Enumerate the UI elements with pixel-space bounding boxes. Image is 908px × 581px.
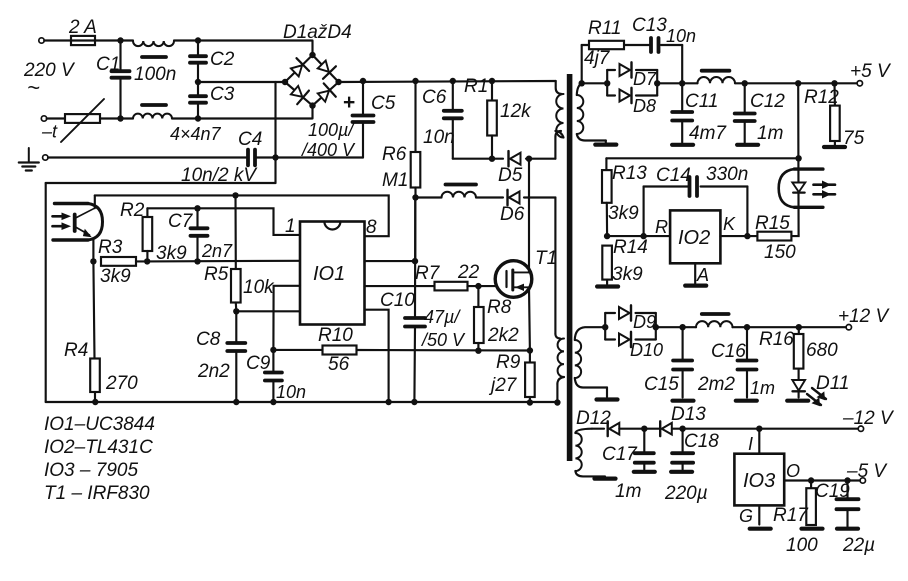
svg-text:IO1: IO1 — [313, 263, 345, 285]
svg-text:D6: D6 — [500, 204, 525, 225]
svg-text:680: 680 — [806, 340, 838, 361]
svg-text:75: 75 — [843, 128, 865, 149]
svg-text:C8: C8 — [196, 329, 221, 350]
svg-text:8: 8 — [366, 217, 377, 238]
svg-text:10n: 10n — [276, 382, 306, 402]
svg-text:R14: R14 — [613, 237, 648, 258]
svg-text:M1: M1 — [382, 170, 408, 191]
svg-text:R11: R11 — [588, 18, 621, 39]
svg-text:220µ: 220µ — [664, 483, 708, 504]
svg-text:/50 V: /50 V — [420, 330, 466, 350]
svg-text:IO2: IO2 — [678, 227, 710, 249]
svg-text:C15: C15 — [644, 374, 679, 395]
svg-text:2 A: 2 A — [68, 17, 97, 38]
svg-text:R15: R15 — [755, 213, 790, 234]
svg-text:D13: D13 — [671, 404, 706, 425]
svg-text:4×4n7: 4×4n7 — [170, 124, 222, 144]
svg-text:D12: D12 — [576, 408, 611, 429]
svg-text:C12: C12 — [750, 91, 785, 112]
svg-text:2n7: 2n7 — [201, 241, 233, 261]
svg-text:4m7: 4m7 — [689, 123, 727, 144]
svg-text:IO2–TL431C: IO2–TL431C — [44, 437, 153, 458]
svg-text:C5: C5 — [371, 93, 396, 114]
svg-text:+12 V: +12 V — [838, 306, 891, 327]
svg-text:C9: C9 — [246, 353, 271, 374]
svg-text:D1ažD4: D1ažD4 — [283, 22, 352, 43]
svg-text:C14: C14 — [656, 165, 691, 186]
svg-text:56: 56 — [328, 354, 350, 375]
svg-text:IO3: IO3 — [743, 470, 775, 492]
svg-text:270: 270 — [105, 373, 138, 394]
svg-text:R3: R3 — [98, 237, 123, 258]
svg-text:47µ/: 47µ/ — [424, 307, 461, 327]
svg-text:j27: j27 — [488, 375, 518, 396]
svg-text:D11: D11 — [816, 373, 849, 394]
svg-text:IO1–UC3844: IO1–UC3844 — [44, 414, 155, 435]
svg-text:O: O — [786, 461, 800, 481]
svg-text:1m: 1m — [757, 123, 783, 144]
svg-text:R7: R7 — [415, 263, 441, 284]
svg-text:R5: R5 — [204, 264, 229, 285]
svg-text:D9: D9 — [633, 312, 656, 332]
svg-text:R6: R6 — [382, 144, 407, 165]
svg-text:+5 V: +5 V — [850, 61, 892, 82]
svg-text:C7: C7 — [168, 211, 194, 232]
svg-text:C3: C3 — [210, 84, 235, 105]
svg-text:10k: 10k — [243, 277, 275, 298]
svg-text:R4: R4 — [64, 340, 88, 361]
svg-text:C1: C1 — [96, 54, 120, 75]
svg-text:R1: R1 — [464, 76, 488, 97]
svg-text:IO3 – 7905: IO3 – 7905 — [44, 460, 138, 481]
svg-text:C6: C6 — [422, 87, 447, 108]
svg-text:12k: 12k — [500, 101, 532, 122]
svg-text:22µ: 22µ — [842, 535, 875, 556]
svg-text:2m2: 2m2 — [697, 374, 735, 395]
svg-text:I: I — [748, 434, 753, 454]
svg-text:R16: R16 — [759, 329, 794, 350]
svg-text:C2: C2 — [210, 49, 235, 70]
svg-text:2n2: 2n2 — [197, 361, 230, 382]
svg-text:330n: 330n — [706, 164, 748, 185]
svg-text:22: 22 — [457, 262, 480, 283]
svg-text:G: G — [739, 506, 753, 526]
svg-text:150: 150 — [764, 242, 796, 263]
svg-text:4j7: 4j7 — [584, 48, 611, 69]
svg-text:K: K — [723, 214, 736, 234]
svg-text:D10: D10 — [630, 340, 663, 360]
svg-text:2k2: 2k2 — [487, 325, 519, 346]
svg-text:R: R — [655, 217, 668, 237]
svg-text:1m: 1m — [615, 481, 641, 502]
svg-text:R8: R8 — [487, 297, 512, 318]
svg-text:R10: R10 — [318, 325, 353, 346]
svg-text:C10: C10 — [380, 290, 415, 311]
svg-text:C18: C18 — [684, 431, 719, 452]
svg-text:D5: D5 — [498, 165, 523, 186]
svg-text:3k9: 3k9 — [608, 203, 639, 224]
svg-text:R13: R13 — [612, 163, 647, 184]
svg-text:C16: C16 — [711, 341, 746, 362]
svg-text:–12 V: –12 V — [842, 408, 895, 429]
svg-text:3k9: 3k9 — [100, 266, 131, 287]
svg-text:D7: D7 — [633, 69, 657, 89]
svg-text:–5 V: –5 V — [846, 461, 888, 482]
svg-text:C13: C13 — [632, 15, 667, 36]
svg-text:10n: 10n — [423, 127, 455, 148]
svg-text:1: 1 — [285, 216, 296, 237]
svg-text:C4: C4 — [238, 129, 262, 150]
svg-text:100µ/: 100µ/ — [308, 120, 355, 140]
svg-text:T1: T1 — [535, 248, 557, 269]
svg-text:3k9: 3k9 — [612, 264, 643, 285]
svg-text:D8: D8 — [633, 96, 656, 116]
svg-text:R17: R17 — [773, 505, 809, 526]
svg-text:/400 V: /400 V — [300, 140, 356, 160]
svg-text:100: 100 — [786, 535, 818, 556]
svg-text:~: ~ — [27, 75, 40, 100]
svg-text:10n: 10n — [666, 26, 696, 46]
svg-text:+: + — [343, 91, 355, 114]
svg-text:C19: C19 — [815, 481, 850, 502]
svg-text:100n: 100n — [134, 64, 176, 85]
svg-text:R12: R12 — [804, 87, 839, 108]
svg-text:A: A — [696, 265, 709, 285]
svg-text:C11: C11 — [685, 91, 718, 112]
svg-text:1m: 1m — [750, 378, 775, 398]
svg-text:–t: –t — [41, 122, 58, 142]
svg-text:C17: C17 — [602, 444, 638, 465]
svg-text:T1 – IRF830: T1 – IRF830 — [44, 483, 150, 504]
svg-text:R9: R9 — [496, 352, 521, 373]
svg-text:R2: R2 — [120, 200, 145, 221]
